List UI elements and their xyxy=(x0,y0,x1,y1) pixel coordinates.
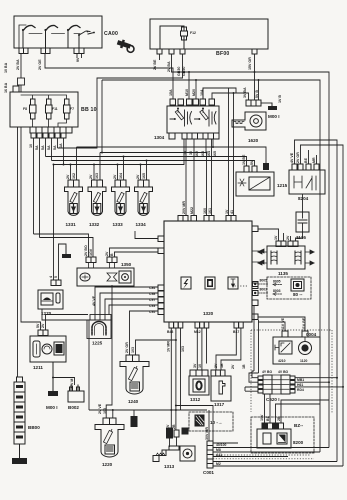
svg-text:8200: 8200 xyxy=(293,440,304,445)
svg-text:2V: 2V xyxy=(214,363,218,368)
svg-text:2V BE: 2V BE xyxy=(153,59,157,70)
8200 pins xyxy=(262,423,284,429)
svg-text:1135: 1135 xyxy=(278,271,288,276)
1320 icon injector xyxy=(228,277,238,289)
C001 lines right xyxy=(213,442,238,444)
svg-text:1B: 1B xyxy=(220,363,224,368)
svg-text:1312: 1312 xyxy=(190,397,201,402)
injector 1334 drops xyxy=(141,161,147,181)
ignition switch CA00 xyxy=(14,16,102,48)
svg-text:162: 162 xyxy=(195,151,199,157)
svg-text:5: 5 xyxy=(54,276,58,278)
bus y152.5 xyxy=(100,139,206,153)
option box BZ00 xyxy=(251,417,314,453)
1320 icon pump xyxy=(205,277,215,289)
svg-text:103: 103 xyxy=(103,408,107,414)
svg-text:B: B xyxy=(110,253,114,256)
wire BF00 right pin down to 1620 xyxy=(254,54,256,100)
1215 pins xyxy=(244,166,257,172)
svg-text:MB1: MB1 xyxy=(297,378,304,382)
svg-text:15V GR: 15V GR xyxy=(248,57,252,70)
svg-text:BE: BE xyxy=(304,157,308,163)
svg-text:5V: 5V xyxy=(36,323,40,328)
injector 1331 xyxy=(65,180,83,215)
svg-text:RD4: RD4 xyxy=(297,388,304,392)
svg-text:1B: 1B xyxy=(242,364,246,369)
svg-text:8003: 8003 xyxy=(260,288,268,292)
wire stub into 1320 left pin 238 xyxy=(135,231,158,239)
svg-text:3V: 3V xyxy=(193,363,197,368)
svg-text:2V: 2V xyxy=(231,364,235,369)
fuse F7 xyxy=(21,95,70,127)
1211 pins xyxy=(38,330,48,336)
wires 1320 bottom cluster2 to 1312 xyxy=(197,328,206,370)
svg-text:4V VE: 4V VE xyxy=(290,152,294,163)
svg-text:2V GR: 2V GR xyxy=(125,342,129,353)
wire BF00 pin3 to wrap pair xyxy=(58,54,183,148)
wire CA00 pin1 down to BB10 xyxy=(20,54,22,93)
injector 1334 xyxy=(135,180,153,215)
svg-text:1211: 1211 xyxy=(33,365,43,370)
svg-text:B002: B002 xyxy=(68,405,79,410)
option pins left of 80 box xyxy=(253,282,283,296)
BB10 top pin xyxy=(13,86,19,92)
svg-text:2V: 2V xyxy=(136,174,140,179)
wires 1313 stems xyxy=(170,437,177,447)
svg-text:2V BO: 2V BO xyxy=(84,245,88,256)
fuse F8 xyxy=(30,99,37,119)
lamp 1120 xyxy=(299,337,312,355)
1320 left pins xyxy=(158,236,164,315)
svg-text:1V: 1V xyxy=(274,235,278,240)
svg-text:F8: F8 xyxy=(23,107,27,111)
svg-text:1V: 1V xyxy=(225,209,229,214)
svg-text:2V GE: 2V GE xyxy=(38,59,42,70)
svg-text:2V: 2V xyxy=(113,174,117,179)
injector 1333 xyxy=(112,180,130,215)
bus from 1270 to C001 xyxy=(89,409,207,411)
svg-text:4: 4 xyxy=(49,276,53,278)
wires C620 right out xyxy=(295,378,343,387)
svg-text:1270: 1270 xyxy=(41,311,52,316)
svg-text:1V MR: 1V MR xyxy=(167,341,171,352)
wires 1135 up to 1320 xyxy=(258,229,291,241)
ground M001 top xyxy=(268,103,277,110)
svg-text:2V VE: 2V VE xyxy=(98,403,102,414)
wire 1136 to 1135 xyxy=(296,232,303,241)
gauge 4210 xyxy=(275,341,292,354)
sensor 1620 xyxy=(232,112,266,130)
svg-text:1331: 1331 xyxy=(66,222,77,227)
svg-text:C84: C84 xyxy=(149,286,155,290)
wire C001 top xyxy=(208,410,210,441)
svg-text:2B: 2B xyxy=(277,416,281,421)
wires 1225 to 1320 left pins xyxy=(95,287,158,355)
svg-text:BB 10: BB 10 xyxy=(81,107,97,113)
svg-text:10V: 10V xyxy=(260,414,264,421)
svg-text:BE: BE xyxy=(266,415,270,421)
svg-text:15A: 15A xyxy=(169,89,173,96)
fuse box BB10 xyxy=(10,92,78,127)
svg-text:M20: M20 xyxy=(192,89,196,96)
svg-text:164: 164 xyxy=(207,151,211,157)
svg-text:1136: 1136 xyxy=(296,235,306,240)
1320 icon lightning xyxy=(181,277,191,289)
wire B002 up xyxy=(53,378,75,386)
svg-text:5A: 5A xyxy=(35,145,39,150)
svg-text:11V VE: 11V VE xyxy=(281,317,285,330)
svg-text:C97: C97 xyxy=(149,298,155,302)
1313 pins xyxy=(167,428,180,438)
rotated wire labels xyxy=(4,57,316,440)
CA00 pins xyxy=(19,48,84,54)
option box 80 xyxy=(267,277,311,299)
1135 spark arrows xyxy=(258,250,314,265)
double relay 1304 xyxy=(167,106,219,133)
svg-text:2V BA: 2V BA xyxy=(167,61,171,72)
svg-text:1GV: 1GV xyxy=(89,248,93,256)
wire 1620 pin1 to 1304 xyxy=(212,93,249,100)
svg-text:1313: 1313 xyxy=(164,464,175,469)
svg-text:M00 I: M00 I xyxy=(268,114,280,119)
svg-text:1120: 1120 xyxy=(300,359,307,363)
svg-text:4V VE: 4V VE xyxy=(92,295,96,306)
svg-text:103: 103 xyxy=(131,347,135,353)
BB10 connector strip xyxy=(30,127,72,138)
wire to 1320 pins pair xyxy=(207,139,212,215)
ground M001 bottom xyxy=(48,362,58,396)
svg-text:80 --: 80 -- xyxy=(293,292,303,297)
svg-text:1334: 1334 xyxy=(136,222,147,227)
svg-text:16 BA: 16 BA xyxy=(4,82,8,93)
left trunk 2 to 1211 xyxy=(21,127,41,330)
1304 bottom connector strip xyxy=(169,133,219,139)
svg-text:C93: C93 xyxy=(149,304,155,308)
battery junction B002 xyxy=(68,385,84,402)
sensor 1313 xyxy=(153,446,195,462)
wires 8200 up xyxy=(265,394,330,423)
wire bus y72 xyxy=(172,54,330,448)
svg-text:1215: 1215 xyxy=(277,183,288,188)
wires 1270 xyxy=(54,165,67,281)
svg-text:2B: 2B xyxy=(172,424,176,429)
svg-text:30: 30 xyxy=(189,151,193,155)
svg-text:4V BO: 4V BO xyxy=(278,370,289,374)
wire 1136 top xyxy=(302,194,304,212)
svg-text:162: 162 xyxy=(72,173,76,179)
svg-text:M10: M10 xyxy=(185,89,189,96)
svg-text:103: 103 xyxy=(181,346,185,352)
injector 1332 xyxy=(88,180,106,215)
svg-text:M12: M12 xyxy=(194,330,201,334)
ground tag on bus xyxy=(133,410,135,416)
svg-text:C001: C001 xyxy=(203,470,214,475)
svg-text:12V M: 12V M xyxy=(70,379,74,389)
bus y147 xyxy=(77,147,267,163)
fuse F11 xyxy=(46,99,53,119)
svg-text:M22: M22 xyxy=(190,207,194,214)
svg-text:1V BE: 1V BE xyxy=(242,154,246,165)
svg-text:M2: M2 xyxy=(216,462,221,466)
svg-text:5A: 5A xyxy=(47,145,51,150)
instrument cluster 0004 xyxy=(273,337,320,364)
wires 1220 up xyxy=(112,410,114,418)
wires to 1320 right top cluster xyxy=(203,88,234,215)
bus y164.5 injector common xyxy=(54,139,185,165)
bus to 1350 left xyxy=(34,234,94,257)
svg-text:4Y BO: 4Y BO xyxy=(262,370,272,374)
ground near 1270 xyxy=(62,246,71,258)
1135 pins xyxy=(276,241,298,247)
svg-text:1332: 1332 xyxy=(89,222,100,227)
battery ground xyxy=(12,444,27,464)
wires C620 left from 1320 xyxy=(254,306,259,373)
pump unit 1211 xyxy=(30,336,66,362)
svg-text:1V: 1V xyxy=(166,424,170,429)
svg-text:A11: A11 xyxy=(216,453,222,457)
svg-text:165: 165 xyxy=(142,173,146,179)
wires 1240 pins up xyxy=(136,340,176,355)
option box 10 xyxy=(189,412,233,431)
svg-text:164: 164 xyxy=(119,173,123,179)
small pin number texts near 1320 left xyxy=(149,150,304,466)
svg-text:10A: 10A xyxy=(200,89,204,96)
svg-text:1V B: 1V B xyxy=(278,95,282,103)
svg-text:1304: 1304 xyxy=(154,135,165,140)
svg-text:2V: 2V xyxy=(105,251,109,256)
unit 1350 xyxy=(77,268,134,286)
svg-text:10 -→: 10 -→ xyxy=(210,420,223,425)
svg-text:1240: 1240 xyxy=(128,399,139,404)
svg-text:1320: 1320 xyxy=(203,311,214,316)
svg-text:1220: 1220 xyxy=(102,462,113,467)
svg-text:11V BE: 11V BE xyxy=(302,317,306,330)
sensor 1240 xyxy=(120,355,149,394)
wire bus y80 xyxy=(102,80,320,452)
svg-text:1620: 1620 xyxy=(248,138,259,143)
wire 1350 down to 1220 xyxy=(106,285,112,418)
left trunk to battery xyxy=(17,127,19,377)
svg-text:BB00: BB00 xyxy=(28,425,40,430)
svg-text:1350: 1350 xyxy=(121,262,132,267)
svg-text:2V BA: 2V BA xyxy=(16,59,20,70)
svg-text:1A: 1A xyxy=(59,143,63,148)
wires 1350 right connector to 1320 xyxy=(110,248,159,257)
svg-text:C98: C98 xyxy=(149,292,155,296)
svg-text:1V: 1V xyxy=(183,150,187,155)
0004 pins xyxy=(282,331,308,337)
wires 1320 bottom cluster1 down xyxy=(171,328,180,430)
wires 8204 pins up xyxy=(295,140,344,466)
svg-text:20V MR: 20V MR xyxy=(182,201,186,214)
svg-text:10 BA: 10 BA xyxy=(4,62,8,73)
svg-text:GR30: GR30 xyxy=(177,67,181,76)
svg-text:H61: H61 xyxy=(297,383,303,387)
svg-text:M8: M8 xyxy=(216,448,221,452)
horn 8200 xyxy=(257,429,291,448)
svg-text:2V: 2V xyxy=(89,174,93,179)
svg-text:2V: 2V xyxy=(41,323,45,328)
dotted shield lines xyxy=(213,286,332,459)
capacitor 1136 xyxy=(296,212,309,232)
battery BB00 xyxy=(14,377,25,444)
1320 right pins xyxy=(252,226,258,320)
bus y160.5 xyxy=(52,161,255,167)
relay 1215 xyxy=(236,172,274,196)
svg-text:BF00: BF00 xyxy=(216,51,230,57)
wires 0004 pins xyxy=(258,317,305,331)
1320 bottom pins xyxy=(169,322,243,328)
1304 top pins xyxy=(170,99,215,105)
bus y405.5 xyxy=(176,406,213,446)
injector 1332 drops xyxy=(94,153,100,181)
svg-text:1225: 1225 xyxy=(92,341,103,346)
svg-text:M00 I: M00 I xyxy=(46,405,58,410)
injector 1331 drops xyxy=(71,147,77,180)
svg-text:C620 I: C620 I xyxy=(266,397,280,402)
sensor 1312 xyxy=(189,370,209,395)
svg-text:161: 161 xyxy=(208,208,212,214)
svg-text:10: 10 xyxy=(198,364,202,368)
unit 1270 xyxy=(38,290,63,309)
svg-text:2V GR: 2V GR xyxy=(296,152,300,163)
svg-text:5V B: 5V B xyxy=(255,90,259,98)
svg-text:1317: 1317 xyxy=(214,402,225,407)
wire 1211 to ground xyxy=(52,362,54,375)
wire BF00 pin1 stub xyxy=(159,54,161,60)
1320 right arrows xyxy=(252,249,264,264)
svg-text:2V: 2V xyxy=(66,174,70,179)
svg-text:4210: 4210 xyxy=(278,359,286,363)
svg-text:3V BA: 3V BA xyxy=(243,87,247,98)
svg-text:5V: 5V xyxy=(250,160,254,165)
bus y156.5 xyxy=(46,157,247,167)
wire CA00 pin3 stubs xyxy=(77,54,82,59)
wires 1211 pins up xyxy=(46,315,89,331)
key icon xyxy=(116,38,135,53)
1225 assembly xyxy=(87,315,111,339)
fuse box BF00 xyxy=(150,19,268,49)
relay 8204 xyxy=(289,170,325,194)
1270 pins xyxy=(51,280,61,286)
svg-text:8003: 8003 xyxy=(273,289,281,293)
connector C001 xyxy=(207,441,213,468)
8204 pins xyxy=(292,164,319,170)
svg-text:BZ--: BZ-- xyxy=(294,423,304,428)
svg-text:F12: F12 xyxy=(190,31,196,35)
svg-text:MR: MR xyxy=(312,157,316,163)
wire 1304 pin5 up xyxy=(203,88,236,99)
pin below 1312 xyxy=(182,428,188,434)
ECU 1320 xyxy=(164,221,252,322)
svg-text:1333: 1333 xyxy=(113,222,124,227)
sensor 1317 xyxy=(211,370,231,401)
svg-text:163: 163 xyxy=(95,173,99,179)
svg-text:F11: F11 xyxy=(52,107,58,111)
svg-text:41: 41 xyxy=(230,210,234,214)
svg-text:8204: 8204 xyxy=(298,196,309,201)
wire wrap pair 2 xyxy=(101,80,103,153)
connector C620 xyxy=(258,375,295,394)
svg-text:8005: 8005 xyxy=(273,280,281,284)
wire 1270 bottom to bus xyxy=(42,309,89,410)
wires BB10 strip down xyxy=(34,138,64,238)
wires layer xyxy=(18,54,345,467)
svg-text:30V MR: 30V MR xyxy=(205,427,209,440)
svg-text:C95: C95 xyxy=(149,310,155,314)
wire 1620 pin3 xyxy=(258,80,260,100)
svg-text:B17: B17 xyxy=(233,330,239,334)
wires 1304 to 1320 top xyxy=(186,139,194,215)
1620 connector pins xyxy=(246,100,261,106)
svg-text:40/100: 40/100 xyxy=(216,443,226,447)
svg-text:5A: 5A xyxy=(53,145,57,150)
svg-text:163: 163 xyxy=(201,151,205,157)
svg-text:CA00: CA00 xyxy=(104,31,118,37)
svg-text:160: 160 xyxy=(203,208,207,214)
fuse F12 xyxy=(181,27,188,40)
svg-text:9V: 9V xyxy=(76,57,80,62)
svg-text:8005: 8005 xyxy=(260,279,268,283)
svg-text:165: 165 xyxy=(213,151,217,157)
sensor 1220 xyxy=(95,418,124,457)
ignition coil 1135 xyxy=(267,246,305,269)
wires 1320 bottom cluster3 to 1317 xyxy=(216,328,241,370)
svg-text:5A: 5A xyxy=(41,145,45,150)
svg-text:2V: 2V xyxy=(286,235,290,240)
wire CA00 pin2 right bus to 1304 xyxy=(45,54,173,100)
1350 pins xyxy=(86,257,117,268)
svg-text:GR50: GR50 xyxy=(182,67,186,76)
svg-text:B48: B48 xyxy=(167,330,173,334)
wire 1620 ground link xyxy=(261,102,272,104)
BF00 pins xyxy=(157,49,257,54)
svg-text:10: 10 xyxy=(29,144,33,148)
injector 1333 drops xyxy=(118,157,124,181)
svg-text:F7: F7 xyxy=(70,107,74,111)
1320 top pins xyxy=(178,216,236,222)
